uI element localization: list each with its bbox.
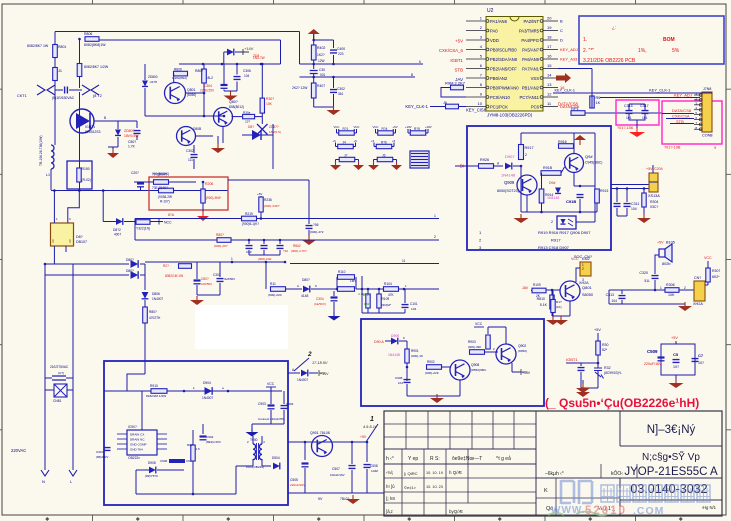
svg-text:K: K bbox=[315, 284, 317, 288]
svg-text:C317: C317 bbox=[640, 104, 649, 108]
svg-text:R304: R304 bbox=[650, 200, 658, 204]
svg-text:8L2: 8L2 bbox=[208, 76, 214, 80]
svg-text:220uF/16V: 220uF/16V bbox=[290, 483, 306, 487]
svg-text:100/50V: 100/50V bbox=[201, 282, 212, 286]
svg-text:N]–3€¡Ný: N]–3€¡Ný bbox=[647, 424, 696, 436]
svg-text:R80?: R80? bbox=[216, 233, 224, 237]
svg-text:(900)-4.7K?: (900)-4.7K? bbox=[291, 249, 307, 253]
svg-text:¿:: ¿: bbox=[612, 25, 616, 30]
svg-text:D90 A: D90 A bbox=[374, 340, 384, 344]
svg-text:10: 10 bbox=[478, 101, 483, 106]
svg-text:10K: 10K bbox=[266, 102, 273, 106]
svg-text:C302: C302 bbox=[337, 87, 345, 91]
svg-text:104: 104 bbox=[398, 381, 403, 385]
svg-text:5%: 5% bbox=[672, 48, 680, 54]
svg-text:20: 20 bbox=[547, 16, 552, 21]
svg-text:J4: J4 bbox=[343, 141, 347, 145]
svg-text:16: 16 bbox=[547, 54, 552, 59]
svg-text:82*: 82* bbox=[602, 348, 608, 352]
svg-text:(900)5-1)K?: (900)5-1)K? bbox=[242, 222, 259, 226]
svg-text:PA6/AN9: PA6/AN9 bbox=[522, 57, 540, 62]
svg-text:.COM: .COM bbox=[633, 505, 664, 517]
svg-text:?0?(800#): ?0?(800#) bbox=[152, 173, 167, 177]
svg-text:PC6: PC6 bbox=[531, 104, 540, 109]
svg-text:13: 13 bbox=[547, 82, 552, 87]
svg-text:VCC: VCC bbox=[373, 125, 379, 129]
svg-text:808(8012): 808(8012) bbox=[229, 105, 244, 109]
svg-text:^t g eå: ^t g eå bbox=[496, 455, 511, 462]
svg-text:D904: D904 bbox=[203, 381, 211, 385]
svg-text:B105: B105 bbox=[666, 241, 675, 245]
svg-text:R910: R910 bbox=[150, 384, 158, 388]
svg-text:D80?: D80? bbox=[126, 269, 134, 273]
svg-text:104: 104 bbox=[611, 299, 617, 303]
svg-text:2. "*": 2. "*" bbox=[583, 48, 594, 54]
svg-text:DB107: DB107 bbox=[76, 240, 87, 244]
svg-text:+5V: +5V bbox=[455, 39, 463, 44]
svg-text:(1K): (1K) bbox=[556, 305, 562, 309]
svg-text:WWW.: WWW. bbox=[551, 505, 586, 516]
svg-text:(900)-1K: (900)-1K bbox=[411, 354, 424, 358]
svg-text:PA1/AN6: PA1/AN6 bbox=[490, 19, 508, 24]
svg-text:(900)-2K7: (900)-2K7 bbox=[214, 244, 228, 248]
svg-text:h! [û: h! [û bbox=[386, 484, 395, 489]
svg-text:CON8: CON8 bbox=[702, 134, 713, 138]
svg-text:4007: 4007 bbox=[114, 233, 121, 237]
svg-text:C90#: C90# bbox=[160, 459, 168, 463]
svg-text:B: B bbox=[104, 116, 106, 120]
svg-text:N;c§g•SŸ̃ Vp: N;c§g•SŸ̃ Vp bbox=[642, 450, 700, 463]
svg-text:C320: C320 bbox=[639, 271, 648, 275]
svg-text:-41?8: -41?8 bbox=[149, 80, 157, 84]
svg-text:C80?: C80? bbox=[201, 277, 209, 281]
svg-text:PB2/AN5/OFF: PB2/AN5/OFF bbox=[490, 66, 517, 71]
svg-text:D8?: D8? bbox=[248, 125, 254, 129]
svg-text:(900)-34K?: (900)-34K? bbox=[264, 204, 280, 208]
svg-text:4.9-5.1v: 4.9-5.1v bbox=[363, 425, 378, 429]
svg-text:R?4: R?4 bbox=[382, 127, 388, 131]
svg-text:Q801: Q801 bbox=[582, 285, 593, 290]
svg-text:6K2*: 6K2* bbox=[712, 275, 720, 279]
svg-text:1K2?: 1K2? bbox=[317, 53, 325, 57]
svg-text:J1: J1 bbox=[58, 69, 62, 73]
svg-text:Q901 78L08: Q901 78L08 bbox=[310, 431, 330, 435]
svg-text:220uF/16V: 220uF/16V bbox=[644, 362, 662, 366]
svg-text:C508: C508 bbox=[370, 464, 378, 468]
svg-text:C945(SBC): C945(SBC) bbox=[585, 161, 602, 165]
svg-text:C400: C400 bbox=[337, 47, 345, 51]
svg-text:1N4007: 1N4007 bbox=[152, 297, 163, 301]
svg-text:IGBT1: IGBT1 bbox=[85, 125, 95, 129]
svg-text:(1E/50V): (1E/50V) bbox=[314, 302, 326, 306]
svg-text:C80?: C80? bbox=[128, 140, 136, 144]
svg-text:C908: C908 bbox=[395, 376, 403, 380]
svg-text:104: 104 bbox=[631, 207, 637, 211]
svg-text:D80?: D80? bbox=[126, 258, 134, 262]
svg-text:223: 223 bbox=[338, 52, 344, 56]
svg-text:1N4007: 1N4007 bbox=[297, 378, 308, 382]
svg-text:1: 1 bbox=[231, 257, 233, 261]
svg-text:PA5/AN7: PA5/AN7 bbox=[522, 47, 540, 52]
svg-text:1M?: 1M? bbox=[350, 279, 356, 283]
svg-text:ZD8??: ZD8?? bbox=[269, 125, 279, 129]
svg-text:SOC_CN?: SOC_CN? bbox=[574, 255, 592, 259]
svg-text:R917: R917 bbox=[525, 146, 534, 150]
svg-text:–6kµh ‹°: –6kµh ‹° bbox=[545, 471, 564, 477]
svg-text:Y ep: Y ep bbox=[408, 456, 418, 462]
svg-text:R806: R806 bbox=[84, 32, 92, 36]
svg-text:CN81: CN81 bbox=[53, 399, 62, 403]
svg-text:19: 19 bbox=[547, 25, 552, 30]
svg-text:+5V: +5V bbox=[657, 241, 664, 245]
svg-text:]â‚z: ]â‚z bbox=[386, 509, 393, 514]
svg-text:R801: R801 bbox=[58, 45, 66, 49]
svg-text:220E/25V: 220E/25V bbox=[200, 89, 215, 93]
svg-text:D8?: D8? bbox=[76, 235, 83, 239]
svg-text:PA4/PPG: PA4/PPG bbox=[521, 38, 539, 43]
svg-text:DRAIN CX: DRAIN CX bbox=[130, 433, 144, 437]
svg-text:R916: R916 bbox=[558, 140, 567, 144]
svg-text:(8#)200V: (8#)200V bbox=[96, 455, 108, 459]
svg-text:R901: R901 bbox=[411, 349, 419, 353]
svg-text:21E/275VAC: 21E/275VAC bbox=[50, 365, 69, 369]
svg-text:+5V: +5V bbox=[594, 328, 601, 332]
svg-text:C30: C30 bbox=[319, 68, 325, 72]
svg-text:VCC: VCC bbox=[475, 322, 483, 326]
svg-text:ZD80?: ZD80? bbox=[124, 129, 135, 133]
svg-text:R903: R903 bbox=[468, 340, 476, 344]
svg-text:DRAIN NC: DRAIN NC bbox=[130, 438, 145, 442]
svg-text:KEY_A33: KEY_A33 bbox=[560, 57, 578, 62]
svg-text:8082/8K7 1/2W: 8082/8K7 1/2W bbox=[84, 65, 109, 69]
svg-text:J7N8: J7N8 bbox=[703, 87, 711, 91]
svg-text:PC0/AN10: PC0/AN10 bbox=[490, 95, 510, 100]
svg-text:1N4148: 1N4148 bbox=[501, 173, 516, 178]
svg-text:104Z: 104Z bbox=[371, 469, 378, 473]
svg-text:1%,: 1%, bbox=[638, 48, 647, 54]
svg-text:DATA/CS8: DATA/CS8 bbox=[672, 108, 692, 113]
svg-text:52010: 52010 bbox=[585, 505, 627, 517]
svg-text:PC1/PCK: PC1/PCK bbox=[490, 104, 508, 109]
svg-text:(8550)SBC: (8550)SBC bbox=[471, 368, 487, 372]
svg-text:h Q/Æ: h Q/Æ bbox=[449, 470, 463, 475]
svg-text:K: K bbox=[403, 336, 405, 340]
svg-text:C505: C505 bbox=[290, 478, 298, 482]
svg-text:(900)-220: (900)-220 bbox=[268, 293, 282, 297]
svg-text:1K: 1K bbox=[596, 101, 601, 105]
svg-text:+18V: +18V bbox=[405, 125, 412, 129]
svg-text:B: B bbox=[411, 73, 413, 77]
svg-text:18V(0.5): 18V(0.5) bbox=[269, 130, 281, 134]
svg-text:‹¾/¡: ‹¾/¡ bbox=[386, 470, 393, 475]
svg-text:2: 2 bbox=[434, 235, 436, 239]
svg-text:‹Hg N/1: ‹Hg N/1 bbox=[702, 505, 717, 510]
svg-text:824B12S3: 824B12S3 bbox=[85, 130, 101, 134]
svg-text:9V: 9V bbox=[318, 497, 323, 501]
svg-text:Y322(1N): Y322(1N) bbox=[136, 227, 150, 231]
svg-text:N: N bbox=[42, 479, 45, 484]
svg-text:2: 2 bbox=[525, 153, 527, 157]
svg-text:14: 14 bbox=[547, 73, 552, 78]
svg-text:KEY_ADJ: KEY_ADJ bbox=[560, 47, 578, 52]
svg-text:PA0: PA0 bbox=[490, 28, 498, 33]
svg-text:Q801: Q801 bbox=[187, 88, 196, 92]
svg-text:R9M 2 2K7: R9M 2 2K7 bbox=[445, 81, 466, 86]
svg-text:CXK/CSA: CXK/CSA bbox=[672, 114, 690, 119]
svg-text:12: 12 bbox=[547, 92, 552, 97]
svg-text:802b: 802b bbox=[662, 262, 670, 266]
svg-text:1N4007: 1N4007 bbox=[202, 396, 213, 400]
svg-text:361: 361 bbox=[338, 92, 344, 96]
svg-text:8082/8K7 1W: 8082/8K7 1W bbox=[27, 44, 49, 48]
svg-text:C902: C902 bbox=[206, 435, 214, 439]
svg-text:CXK/CSA_6: CXK/CSA_6 bbox=[439, 48, 464, 53]
svg-text:R307: R307 bbox=[712, 269, 720, 273]
svg-text:17-18.5V: 17-18.5V bbox=[312, 361, 328, 365]
svg-text:(8E3)C15V: (8E3)C15V bbox=[206, 440, 221, 444]
svg-text:C304: C304 bbox=[286, 402, 294, 406]
svg-text:(900)2*: (900)2* bbox=[382, 303, 393, 307]
svg-text:C306: C306 bbox=[243, 69, 251, 73]
svg-text:D504: D504 bbox=[272, 456, 280, 460]
svg-text:PB2/SDA/AN8: PB2/SDA/AN8 bbox=[490, 57, 518, 62]
svg-text:JAV: JAV bbox=[522, 286, 529, 290]
svg-text:001: 001 bbox=[320, 73, 326, 77]
svg-text:Q9#: Q9# bbox=[585, 154, 593, 159]
svg-text:8182/2M 1/2W: 8182/2M 1/2W bbox=[146, 394, 166, 398]
svg-text:+5: +5 bbox=[333, 139, 337, 143]
svg-text:?10: ?10 bbox=[283, 249, 288, 253]
svg-text:D80?: D80? bbox=[302, 278, 310, 282]
svg-text:R109: R109 bbox=[533, 283, 541, 287]
svg-text:?06: ?06 bbox=[313, 223, 319, 227]
svg-text:PB1/AN2: PB1/AN2 bbox=[522, 85, 540, 90]
svg-text:D: D bbox=[560, 38, 563, 43]
svg-text:2: 2 bbox=[684, 286, 686, 290]
svg-text:C313: C313 bbox=[606, 293, 614, 297]
svg-text:VDD: VDD bbox=[490, 38, 499, 43]
svg-text:2K2? 12W: 2K2? 12W bbox=[292, 86, 308, 90]
svg-text:104: 104 bbox=[411, 307, 416, 311]
svg-text:R110: R110 bbox=[338, 270, 346, 274]
svg-text:NCC: NCC bbox=[164, 221, 172, 225]
svg-text:+5V: +5V bbox=[671, 336, 678, 340]
svg-text:4702TH: 4702TH bbox=[149, 316, 161, 320]
svg-text:R?b: R?b bbox=[381, 141, 387, 145]
svg-text:(8C99/03)*L: (8C99/03)*L bbox=[604, 371, 622, 375]
svg-text:C509: C509 bbox=[647, 349, 658, 354]
svg-text:D806: D806 bbox=[152, 292, 160, 296]
svg-text:D907: D907 bbox=[505, 154, 515, 159]
svg-text:C507: C507 bbox=[332, 467, 340, 471]
svg-text:VCC: VCC bbox=[334, 125, 340, 129]
svg-text:ôe9e‡Nœ—T: ôe9e‡Nœ—T bbox=[452, 456, 482, 462]
svg-text:10?: 10? bbox=[698, 361, 704, 365]
svg-text:R1?: R1? bbox=[556, 300, 562, 304]
svg-text:KEY_CLK-1: KEY_CLK-1 bbox=[405, 104, 428, 109]
svg-text:XH2A: XH2A bbox=[693, 302, 703, 306]
svg-text:100uF/16V: 100uF/16V bbox=[330, 473, 345, 477]
svg-text:?01?-106: ?01?-106 bbox=[617, 126, 633, 130]
svg-text:(900)-472: (900)-472 bbox=[310, 230, 324, 234]
svg-text:+5V: +5V bbox=[393, 125, 398, 129]
svg-text:R?5: R?5 bbox=[414, 127, 420, 131]
svg-text:XS13A: XS13A bbox=[648, 194, 660, 198]
svg-text:R S:: R S: bbox=[430, 456, 440, 462]
svg-text:R10?: R10? bbox=[363, 293, 371, 297]
svg-text:2: 2 bbox=[551, 220, 553, 224]
svg-text:L1: L1 bbox=[46, 173, 50, 177]
svg-text:A: A bbox=[297, 284, 299, 288]
svg-text:R407: R407 bbox=[317, 84, 325, 88]
svg-text:3L8/50V: 3L8/50V bbox=[224, 277, 235, 281]
svg-text:51L: 51L bbox=[644, 279, 650, 283]
svg-text:3.21/2DE OB2226 PCB: 3.21/2DE OB2226 PCB bbox=[583, 58, 636, 64]
svg-text:h ‹°: h ‹° bbox=[386, 456, 394, 462]
svg-text:111: 111 bbox=[188, 158, 193, 162]
svg-text:C8#: C8# bbox=[246, 250, 252, 254]
svg-text:10. 10. 23: 10. 10. 23 bbox=[426, 485, 443, 489]
svg-text:18: 18 bbox=[547, 35, 552, 40]
svg-text:8050(SOT23): 8050(SOT23) bbox=[497, 189, 519, 193]
svg-text:Q909: Q909 bbox=[504, 180, 515, 185]
svg-text:C311: C311 bbox=[631, 202, 639, 206]
svg-text:03.0140-3032: 03.0140-3032 bbox=[630, 482, 707, 496]
svg-text:(9038-2W: (9038-2W bbox=[158, 195, 172, 199]
svg-text:R6: R6 bbox=[596, 96, 601, 100]
svg-text:17: 17 bbox=[547, 44, 552, 49]
svg-text:1N4-7W: 1N4-7W bbox=[253, 56, 265, 60]
svg-text:1.5: 1.5 bbox=[196, 447, 201, 451]
svg-text:R-107): R-107) bbox=[160, 200, 170, 204]
svg-text:VCC: VCC bbox=[267, 382, 275, 386]
svg-text:10K: 10K bbox=[668, 293, 675, 297]
svg-text:B: B bbox=[560, 19, 563, 24]
svg-text:1: 1 bbox=[660, 286, 662, 290]
svg-text:IC90?: IC90? bbox=[128, 425, 137, 429]
svg-text:D8?2: D8?2 bbox=[113, 228, 121, 232]
svg-text:1: 1 bbox=[370, 416, 374, 423]
svg-text:R9#: R9# bbox=[187, 443, 193, 447]
svg-text:C7: C7 bbox=[698, 353, 704, 358]
svg-text:R30?: R30? bbox=[266, 97, 274, 101]
svg-text:STB: STB bbox=[454, 68, 463, 73]
svg-text:03C?: 03C? bbox=[650, 205, 658, 209]
svg-text:TR-106.26-T88(1/W): TR-106.26-T88(1/W) bbox=[39, 136, 43, 166]
svg-text:(8#)Y5?C: (8#)Y5?C bbox=[145, 474, 159, 478]
svg-text:1N4148: 1N4148 bbox=[388, 353, 400, 357]
svg-text:R902: R902 bbox=[427, 360, 435, 364]
svg-text:8082(8K8)1W: 8082(8K8)1W bbox=[84, 43, 106, 47]
svg-text:PC7/AN11: PC7/AN11 bbox=[520, 95, 540, 100]
svg-text:R80?: R80? bbox=[195, 69, 203, 73]
svg-text:10. 10. 19: 10. 10. 19 bbox=[426, 471, 443, 475]
svg-text:+5: +5 bbox=[392, 139, 396, 143]
svg-text:+5: +5 bbox=[354, 139, 358, 143]
svg-text:J?: J? bbox=[344, 154, 348, 158]
svg-text:73E-334K?: 73E-334K? bbox=[152, 186, 168, 190]
svg-text:T900: T900 bbox=[250, 438, 258, 442]
svg-text:10?: 10? bbox=[673, 365, 679, 369]
svg-text:R80?: R80? bbox=[149, 310, 157, 314]
svg-text:R917: R917 bbox=[551, 238, 561, 243]
svg-text:IGBT1: IGBT1 bbox=[450, 58, 463, 63]
svg-text:C91B: C91B bbox=[566, 199, 576, 204]
svg-text:(900)-10E: (900)-10E bbox=[258, 257, 271, 261]
svg-text:©e‡1>: ©e‡1> bbox=[404, 485, 417, 490]
svg-text:KEY_CIS8: KEY_CIS8 bbox=[466, 108, 487, 113]
svg-text:VCC: VCC bbox=[704, 256, 712, 260]
svg-text:(8050): (8050) bbox=[187, 93, 196, 97]
svg-text:IGBT1: IGBT1 bbox=[566, 357, 578, 362]
svg-text:JYOP-21ES55C A: JYOP-21ES55C A bbox=[624, 466, 718, 478]
svg-text:BOM: BOM bbox=[663, 37, 675, 43]
svg-text:R206: R206 bbox=[205, 182, 213, 186]
svg-text:R236: R236 bbox=[264, 198, 272, 202]
svg-text:PB0/AN2: PB0/AN2 bbox=[490, 76, 508, 81]
svg-text:KEY_CLK-1: KEY_CLK-1 bbox=[555, 89, 575, 93]
svg-text:(900)-3K6*: (900)-3K6* bbox=[206, 196, 222, 200]
svg-text:2: 2 bbox=[307, 351, 312, 358]
svg-text:6: 6 bbox=[419, 60, 421, 64]
svg-text:Q908: Q908 bbox=[471, 363, 479, 367]
svg-text:8082/1M 1W: 8082/1M 1W bbox=[165, 274, 183, 278]
svg-text:R914: R914 bbox=[545, 193, 553, 197]
svg-text:22?: 22? bbox=[245, 120, 250, 124]
svg-text:D908: D908 bbox=[148, 461, 156, 465]
svg-text:1: 1 bbox=[434, 214, 436, 218]
svg-text:R913: R913 bbox=[600, 189, 608, 193]
svg-text:D80B: D80B bbox=[193, 127, 202, 131]
svg-text:R32: R32 bbox=[604, 366, 611, 370]
svg-text:R919 R916 R917 Q906 D907: R919 R916 R917 Q906 D907 bbox=[538, 230, 591, 235]
svg-text:(900)-22K: (900)-22K bbox=[425, 371, 440, 375]
svg-text:R150: R150 bbox=[82, 167, 90, 171]
svg-text:C903: C903 bbox=[258, 402, 266, 406]
svg-text:S8050: S8050 bbox=[582, 293, 593, 297]
svg-text:5.1K: 5.1K bbox=[540, 303, 548, 307]
svg-text:VCC: VCC bbox=[354, 125, 360, 129]
svg-text:+18V: +18V bbox=[425, 125, 432, 129]
svg-text:12W: 12W bbox=[318, 59, 325, 63]
svg-text:R30a: R30a bbox=[243, 111, 251, 115]
svg-text:CN?: CN? bbox=[694, 276, 701, 280]
svg-text:+5V: +5V bbox=[257, 192, 262, 196]
svg-text:R8#2: R8#2 bbox=[293, 244, 301, 248]
svg-text:47K: 47K bbox=[388, 293, 395, 297]
svg-text:4148: 4148 bbox=[301, 294, 309, 298]
svg-text:R219: R219 bbox=[245, 212, 253, 216]
svg-text:R402: R402 bbox=[317, 46, 325, 50]
svg-text:PB0/SCL/RB0: PB0/SCL/RB0 bbox=[490, 47, 517, 52]
svg-text:C304: C304 bbox=[316, 297, 324, 301]
svg-text:C910: C910 bbox=[96, 450, 104, 454]
svg-text:Q902: Q902 bbox=[518, 344, 526, 348]
svg-text:OB222x: OB222x bbox=[128, 456, 140, 460]
svg-text:R104: R104 bbox=[384, 282, 392, 286]
svg-text:R?1: R?1 bbox=[343, 127, 349, 131]
svg-text:+14V: +14V bbox=[244, 46, 254, 51]
svg-text:PA2/INT: PA2/INT bbox=[523, 19, 539, 24]
svg-text:(R-02): (R-02) bbox=[82, 178, 91, 182]
svg-text:?01?-10B: ?01?-10B bbox=[664, 146, 681, 150]
svg-text:1.: 1. bbox=[583, 37, 587, 43]
svg-text:R2?: R2? bbox=[163, 264, 169, 268]
svg-text:C101: C101 bbox=[410, 302, 418, 306]
svg-text:2: 2 bbox=[582, 267, 584, 271]
svg-text:9B2*: 9B2* bbox=[364, 302, 371, 306]
svg-text:C: C bbox=[560, 28, 563, 33]
